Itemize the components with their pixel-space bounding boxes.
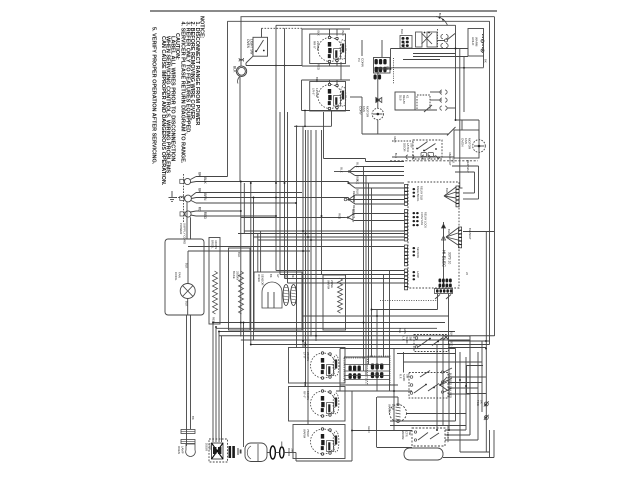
relay arc to top	[436, 17, 448, 26]
board comp 1	[413, 188, 416, 197]
switch S3 dashed box	[412, 428, 445, 446]
wire x394 down	[393, 349, 395, 431]
lamp disc 1	[181, 430, 195, 434]
wire lamp right vert	[190, 315, 192, 429]
svg-text:LIGHT SW: LIGHT SW	[249, 39, 253, 54]
wire x376.5 down	[376, 397, 378, 448]
svg-text:BLK: BLK	[402, 43, 406, 48]
svg-text:BLK: BLK	[233, 66, 237, 73]
svg-text:BLK: BLK	[303, 382, 307, 387]
svg-text:BLK: BLK	[341, 31, 345, 36]
svg-text:GRN: GRN	[367, 426, 371, 432]
strip pins	[436, 289, 452, 292]
svg-text:OVEN: OVEN	[246, 39, 250, 49]
convection fan motor	[372, 108, 383, 119]
S3 contacts	[414, 431, 416, 433]
wire N branch y203	[191, 201, 196, 204]
fuse circle 1	[484, 402, 488, 406]
wire pin stub y199	[463, 198, 479, 200]
svg-text:BLK: BLK	[398, 328, 402, 333]
wire y348.5	[340, 348, 456, 350]
svg-text:LR 6": LR 6"	[312, 88, 316, 95]
wire mid y362	[404, 361, 483, 363]
cluster 2 outline	[368, 356, 391, 385]
wire right edge vertical x494.5	[494, 17, 496, 336]
wire N main y197.5	[191, 198, 196, 199]
wire x296 down	[295, 453, 297, 462]
svg-text:RELAY LOCK: RELAY LOCK	[423, 212, 427, 228]
svg-text:BK: BK	[198, 188, 202, 193]
board trace vertical	[443, 222, 445, 283]
ground symbol	[176, 197, 185, 199]
wire S2 y382.5	[448, 382, 482, 384]
wire corner y166	[452, 165, 479, 167]
warm element box	[323, 275, 346, 330]
svg-text:SUPPLY CORD: SUPPLY CORD	[183, 223, 187, 245]
wire g4 feed y270.5	[276, 270, 404, 272]
cooling fan motor	[180, 284, 195, 299]
right contacts row1	[441, 371, 443, 373]
svg-text:OR: OR	[284, 274, 288, 278]
wire switch stem	[261, 28, 263, 37]
strip lead Z left	[435, 295, 440, 300]
board comp 2	[413, 212, 419, 226]
wire stub y100	[430, 99, 442, 101]
wire bus x276	[275, 25, 277, 270]
svg-text:P3: P3	[357, 58, 361, 62]
notice text block	[151, 16, 205, 186]
bake coil	[239, 271, 244, 314]
latch switch blades	[417, 142, 428, 150]
wire hold warm bottom	[413, 56, 468, 58]
wire x455.5	[455, 25, 457, 120]
connector P6 pins	[459, 227, 462, 248]
wire bus x240.8	[240, 182, 242, 337]
dotted wire y300.4	[380, 299, 438, 301]
right contacts row2	[441, 381, 443, 383]
dashed separator y160.5	[390, 160, 478, 162]
terminal N	[185, 195, 192, 202]
relay pins	[402, 37, 409, 47]
svg-text:SW: SW	[410, 143, 414, 148]
wire bus x284.5	[284, 28, 286, 278]
wire right low vertical x489.5	[489, 430, 491, 458]
wire lamp bottom to L1 x240	[239, 77, 241, 181]
wire x305 drop	[304, 111, 306, 127]
wire x403.5 link	[403, 352, 405, 373]
wire diag y134 end	[447, 127, 456, 136]
wire strip down left	[437, 299, 439, 310]
terminal L2	[185, 211, 191, 217]
svg-text:CONN: CONN	[361, 58, 365, 67]
svg-text:2500W: 2500W	[306, 352, 310, 361]
svg-text:2100W: 2100W	[316, 41, 320, 51]
svg-text:BR: BR	[291, 274, 295, 278]
bottom loop	[404, 448, 443, 460]
svg-text:SW: SW	[408, 431, 412, 436]
surface element center	[311, 390, 339, 418]
wire mid feeds y240	[258, 239, 404, 241]
svg-text:BK: BK	[480, 400, 484, 404]
wire warmer right	[407, 413, 467, 415]
svg-text:BLK: BLK	[394, 153, 398, 158]
wire y246.5 feed	[188, 246, 404, 248]
wire S3 y440	[445, 439, 478, 441]
svg-text:WARM: WARM	[474, 37, 478, 47]
svg-text:RELAY: RELAY	[402, 95, 406, 104]
svg-text:BLK: BLK	[445, 188, 449, 193]
svg-text:DLB: DLB	[399, 95, 403, 101]
svg-text:22: 22	[465, 272, 469, 276]
oven sensor box	[254, 272, 302, 330]
wire lamp feed vertical x241	[240, 17, 242, 66]
wire y69 stub	[377, 69, 379, 74]
cluster 1 outline	[344, 358, 366, 385]
wire x464	[463, 57, 465, 113]
svg-text:RED: RED	[338, 213, 342, 219]
svg-text:SURF: SURF	[405, 337, 409, 345]
cluster crossing wires	[344, 364, 390, 366]
svg-text:GY: GY	[276, 274, 280, 278]
svg-text:GRN: GRN	[403, 328, 407, 334]
latch relay box1	[395, 92, 415, 110]
wire unit1-unit2 link	[340, 62, 342, 80]
relay contact right	[445, 39, 448, 42]
svg-text:BLK: BLK	[203, 177, 207, 184]
svg-text:CAN CAUSE IMPROPER AND DANGERO: CAN CAUSE IMPROPER AND DANGEROUS OPERATI…	[160, 36, 166, 186]
wire S3 y430	[445, 429, 466, 431]
relay dashed link x437.5	[437, 29, 439, 48]
oven fan box	[454, 130, 479, 158]
lamp tail arc	[238, 77, 240, 84]
svg-text:3400W: 3400W	[214, 240, 218, 249]
wire bundle y335.75	[219, 335, 495, 337]
broil coil	[213, 271, 218, 314]
surface unit 2 outer wire	[301, 80, 303, 111]
svg-text:5. VERIFY PROPER OPERATION AFT: 5. VERIFY PROPER OPERATION AFTER SERVICI…	[151, 27, 157, 165]
svg-text:LOCK: LOCK	[208, 443, 212, 451]
wire y447.5 stub	[377, 447, 412, 449]
latch resistor boxes	[421, 153, 427, 157]
oven lamp bulb	[186, 444, 196, 456]
connector P2 pins	[405, 210, 408, 242]
board relay pins	[439, 279, 452, 288]
splitter node1	[348, 170, 350, 172]
svg-text:RED/WHT: RED/WHT	[466, 160, 470, 173]
svg-text:RED/WHT: RED/WHT	[351, 209, 355, 222]
wire N up branch y192.5	[191, 193, 196, 197]
wire y397 link	[377, 396, 398, 398]
capacitor bars	[229, 446, 232, 458]
board comp 4	[413, 271, 416, 280]
svg-text:WARM: WARM	[327, 280, 331, 290]
dotted x393.5	[393, 58, 395, 84]
wire L2 up branch y211	[191, 211, 197, 212]
wire bus x253.5	[253, 198, 255, 341]
unit1 bottom stubs	[329, 62, 331, 66]
wire corner y172	[455, 171, 475, 173]
right contacts row3	[441, 391, 443, 393]
surface unit 1 box	[310, 34, 346, 64]
svg-text:SURF: SURF	[402, 374, 406, 382]
relay coil box 1	[416, 32, 423, 47]
wire x216 down	[215, 327, 217, 442]
wire bundle y331.5	[219, 331, 455, 333]
wire y97 stub	[350, 96, 362, 98]
wire y425.5	[390, 425, 466, 427]
wire x482 drop	[481, 341, 483, 412]
svg-text:750W: 750W	[306, 429, 310, 437]
svg-text:LF 8": LF 8"	[303, 352, 307, 359]
wire mid feeds y231b	[261, 230, 404, 232]
wire L1 up branch	[191, 177, 197, 180]
svg-text:RR 8": RR 8"	[313, 41, 317, 49]
wire y430.5 GRN	[352, 430, 412, 432]
strip lead Z right	[446, 295, 451, 300]
oven light switch box	[253, 37, 268, 56]
connector cluster 1 pins	[349, 366, 361, 379]
lock motor blob	[212, 443, 224, 459]
wire S1 y341	[449, 340, 491, 342]
wire x390.5 down	[390, 49, 392, 70]
svg-text:BLK: BLK	[237, 252, 241, 257]
connector arcs top right	[441, 35, 443, 39]
svg-text:BLK: BLK	[450, 331, 454, 336]
wire bus x257.8	[257, 234, 259, 273]
splitter node3	[347, 198, 349, 200]
cooling fan box	[165, 239, 204, 315]
wire conv fan feed	[377, 68, 379, 108]
svg-text:DOOR: DOOR	[403, 143, 407, 151]
small marks	[237, 448, 239, 455]
connector P4 pins	[405, 269, 408, 290]
svg-text:HI ELEC: HI ELEC	[442, 250, 447, 267]
svg-text:BK: BK	[198, 172, 202, 177]
wire stub y108	[448, 107, 456, 109]
wire lamp left vert	[186, 315, 188, 446]
S2 contacts	[410, 376, 413, 379]
svg-text:BROIL: BROIL	[211, 240, 215, 249]
wire bus x280	[279, 112, 281, 275]
svg-text:BLK: BLK	[185, 263, 189, 268]
wire g4 feed y278.5	[285, 278, 405, 280]
svg-text:BK: BK	[191, 416, 195, 420]
lamp disc 2	[181, 440, 195, 444]
surface unit 1 outer wire	[301, 29, 303, 66]
wire y251 feed	[188, 250, 310, 252]
wire dashed y141	[392, 140, 413, 142]
svg-text:BLK: BLK	[452, 158, 456, 163]
wire y391	[336, 390, 412, 392]
svg-text:MOTOR: MOTOR	[468, 138, 472, 150]
svg-text:OVEN: OVEN	[461, 138, 465, 147]
wire motor feed	[187, 251, 189, 284]
S1 exit X	[443, 335, 449, 341]
wire fuse feed x486.3	[485, 232, 487, 349]
wire y421	[390, 420, 456, 422]
svg-text:RD: RD	[198, 207, 202, 212]
svg-text:WARM: WARM	[303, 429, 307, 439]
wire bus x316	[315, 130, 317, 341]
connector marks below switch	[239, 58, 244, 60]
wire x470 drop	[469, 336, 471, 435]
connector pins top	[375, 59, 387, 72]
wire x366	[365, 176, 367, 376]
wire y461	[296, 460, 352, 462]
svg-text:WARM: WARM	[388, 404, 392, 413]
connector P5 pins	[456, 186, 459, 207]
wire N down to motor box	[186, 202, 188, 239]
wire bundle y327	[216, 327, 437, 329]
svg-text:RED: RED	[203, 212, 207, 220]
surface unit 2 box	[310, 82, 346, 112]
y157 connector marks	[406, 155, 408, 159]
oven fan wire top	[456, 119, 480, 121]
wire y452	[460, 451, 490, 453]
wire y357	[344, 356, 390, 358]
svg-text:RF 6": RF 6"	[303, 391, 307, 398]
wire S2 y377	[448, 376, 486, 378]
wire x352 down	[351, 391, 353, 461]
surface element right front	[311, 428, 339, 456]
wire x382 stub	[381, 40, 383, 57]
svg-text:CTR: CTR	[391, 404, 395, 410]
svg-text:CONV FAN: CONV FAN	[420, 212, 424, 225]
switch S1 dashed box	[414, 335, 449, 352]
wire y59.5	[403, 59, 440, 61]
svg-text:RED/WHT: RED/WHT	[448, 153, 452, 166]
door lock bell	[245, 443, 267, 462]
wire y447.5 to right	[267, 452, 270, 454]
wire S2 y388	[448, 387, 478, 389]
svg-text:LAMP: LAMP	[416, 271, 420, 278]
latch relay box2	[417, 95, 430, 110]
svg-text:RED: RED	[317, 64, 321, 70]
wire S3 y435	[445, 434, 470, 436]
svg-text:FAN: FAN	[362, 106, 366, 112]
wire S1 y336	[449, 335, 471, 337]
wire right low vertical x494	[493, 430, 495, 458]
wire x371.5	[371, 188, 373, 357]
bottom right verticals	[436, 345, 438, 431]
wire dashed y28.3	[262, 27, 303, 29]
svg-text:POWER: POWER	[179, 223, 183, 235]
svg-text:L.F.: L.F.	[402, 337, 406, 342]
wire x368.5	[368, 183, 370, 364]
wire top bus y25.3	[276, 24, 456, 26]
wire pin stub y193	[463, 192, 475, 194]
svg-text:BLK: BLK	[340, 167, 344, 172]
wire bus x311	[310, 130, 312, 337]
lock oval 1	[270, 446, 275, 459]
wire right edge vertical x489.5	[489, 21, 491, 344]
wire y65.5 lamp row	[246, 65, 302, 67]
wire x377 down	[376, 310, 378, 392]
conv fan connector bowtie	[376, 98, 380, 103]
broil element box	[209, 238, 220, 325]
hold warm contact dashes	[482, 34, 484, 53]
svg-text:BAKE: BAKE	[232, 271, 236, 279]
wire bundle y344.5	[251, 344, 490, 346]
wire bus x321.5	[321, 130, 323, 275]
svg-text:LATCH: LATCH	[406, 143, 410, 152]
latch coil marks	[434, 156, 440, 159]
warmer element	[390, 405, 407, 422]
svg-text:1250W: 1250W	[315, 88, 319, 98]
svg-text:BK: BK	[269, 274, 273, 278]
wire motor down	[187, 299, 189, 316]
wire g4 feed y283	[288, 282, 405, 284]
wire fuse vertical x486	[485, 349, 487, 453]
wire L2 low y217.5	[241, 217, 345, 219]
power terminal dashed column	[183, 174, 185, 222]
stub pins	[374, 75, 382, 80]
wire bus x244.3	[243, 183, 245, 234]
wire x362 down	[361, 97, 363, 134]
svg-text:BLK: BLK	[356, 179, 360, 184]
wire x243.5 down	[243, 323, 245, 448]
svg-text:SW: SW	[409, 337, 413, 342]
svg-text:RELAY DLB: RELAY DLB	[419, 186, 423, 200]
svg-text:BAKE BROIL: BAKE BROIL	[416, 186, 420, 202]
warm coil	[338, 278, 343, 313]
wire S2 y394	[448, 393, 470, 395]
svg-text:RED: RED	[352, 196, 356, 202]
svg-text:BLK/WHT: BLK/WHT	[468, 228, 472, 240]
connector cluster 2 pins	[371, 364, 384, 379]
wire unit2 bottom stub	[331, 111, 333, 127]
top border line	[150, 10, 497, 12]
wire y457.5	[443, 457, 494, 459]
wire x459.8	[459, 49, 461, 189]
wire x219 down	[218, 332, 220, 443]
oven light switch blade	[256, 40, 264, 52]
latch connector arcs right	[440, 90, 442, 94]
svg-text:ZONE: ZONE	[330, 280, 334, 288]
wire top bus y21.3	[228, 20, 490, 22]
svg-text:OVEN: OVEN	[257, 274, 261, 282]
board bottom strip	[435, 289, 453, 294]
wire bundle y340	[241, 339, 470, 341]
wire L2 main y216	[191, 215, 197, 216]
wire y110 relay	[395, 109, 437, 111]
svg-text:OVEN: OVEN	[177, 446, 181, 454]
svg-text:BLK: BLK	[317, 31, 321, 36]
surface element left front	[311, 352, 339, 380]
relay X diagonals	[422, 33, 433, 44]
svg-text:R.F.: R.F.	[399, 374, 403, 379]
connector P3 pins	[405, 245, 408, 266]
unit2 bottom stubs	[329, 108, 331, 110]
wire y385	[340, 384, 398, 386]
wire corner x462	[461, 120, 463, 130]
right box outline	[467, 365, 484, 367]
wire y48.5	[391, 48, 469, 50]
switch S2 dashed box	[409, 373, 448, 399]
wire bus x260.6	[260, 231, 262, 272]
wire bus x305.5	[305, 130, 307, 387]
splitter node4	[347, 216, 349, 218]
svg-text:SENSOR: SENSOR	[261, 274, 265, 285]
wire bus x303	[302, 126, 304, 348]
oven fan motor	[473, 140, 486, 153]
connector P1 pins	[405, 185, 408, 206]
wire x213 down	[212, 323, 214, 443]
wire mid feeds y237	[254, 236, 405, 238]
lock oval 2	[280, 447, 284, 458]
svg-text:LAMP: LAMP	[180, 446, 184, 454]
relay pin block outline	[400, 36, 412, 49]
